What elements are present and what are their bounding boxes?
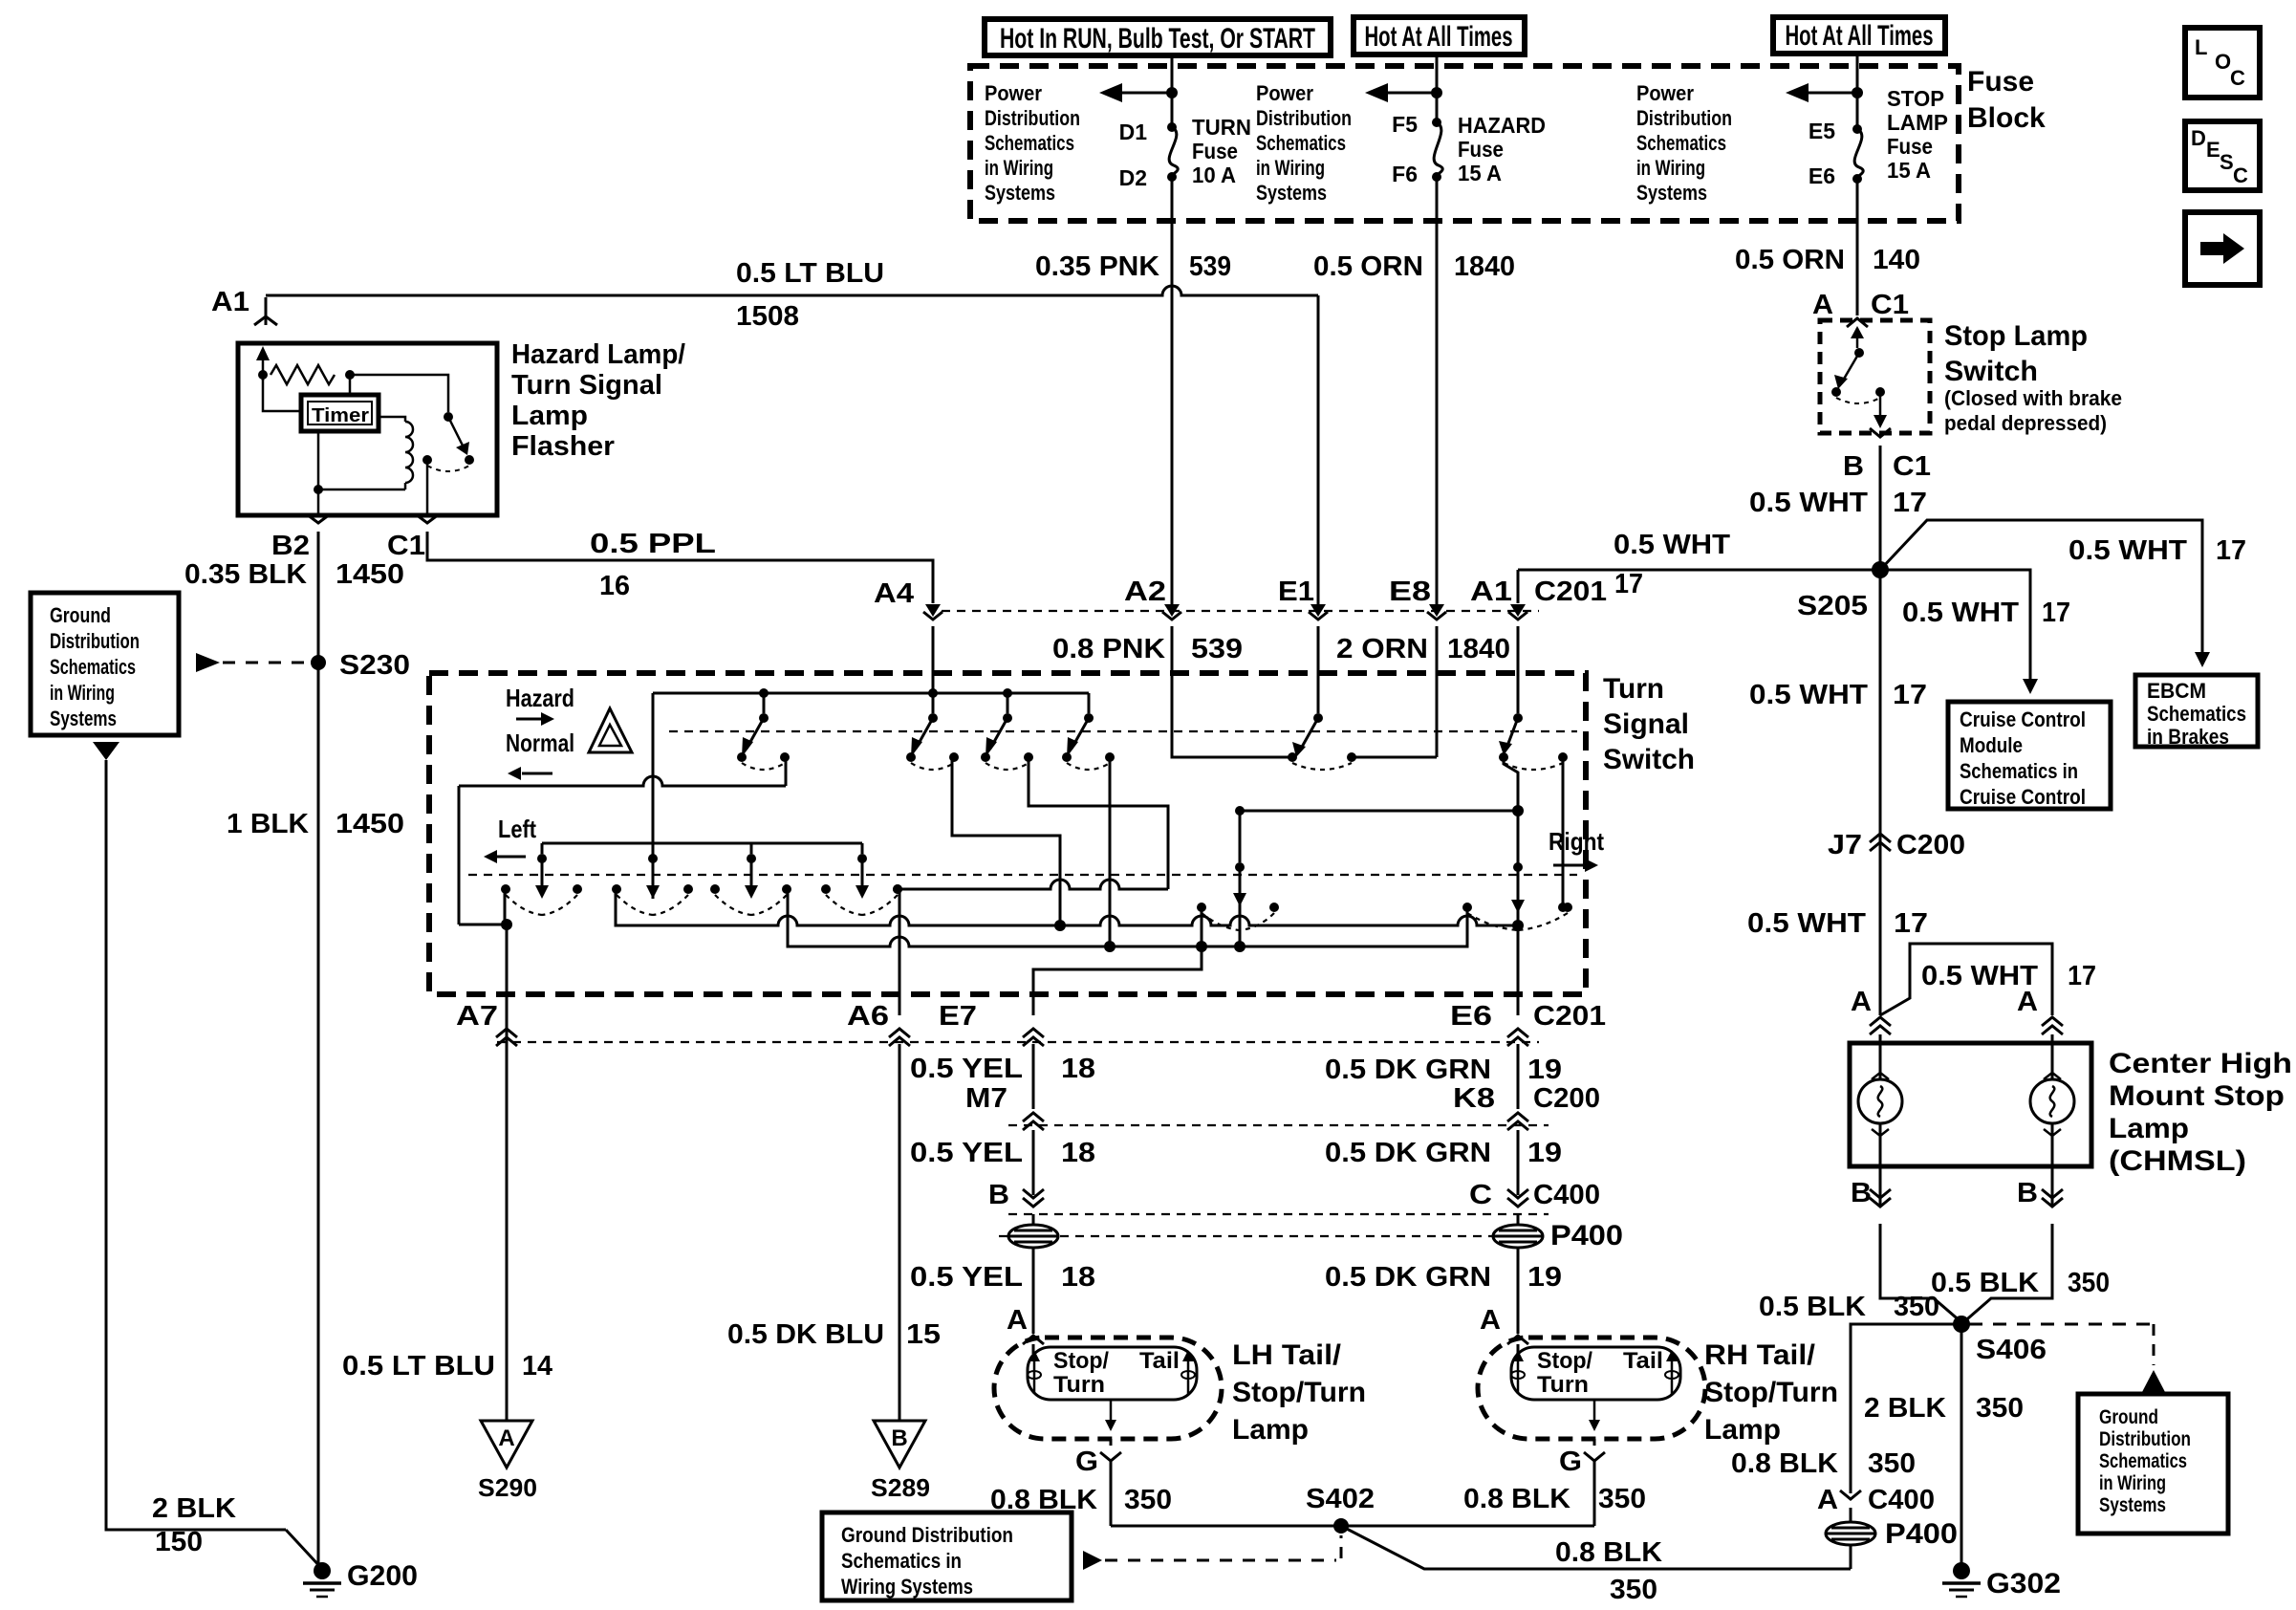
svg-text:0.5 BLK: 0.5 BLK bbox=[1759, 1292, 1866, 1322]
svg-text:Hot At All Times: Hot At All Times bbox=[1365, 21, 1513, 53]
svg-text:18: 18 bbox=[1061, 1138, 1095, 1168]
svg-text:19: 19 bbox=[1527, 1138, 1562, 1168]
svg-text:17: 17 bbox=[1893, 488, 1927, 518]
svg-text:C400: C400 bbox=[1868, 1485, 1935, 1515]
svg-text:Fuse: Fuse bbox=[1887, 134, 1933, 159]
svg-text:S230: S230 bbox=[339, 650, 410, 681]
svg-text:Hazard Lamp/: Hazard Lamp/ bbox=[511, 339, 685, 370]
svg-text:0.5 DK BLU: 0.5 DK BLU bbox=[727, 1319, 884, 1350]
svg-text:D2: D2 bbox=[1119, 165, 1147, 190]
svg-text:G200: G200 bbox=[347, 1560, 418, 1592]
svg-text:1840: 1840 bbox=[1447, 634, 1510, 664]
svg-text:A: A bbox=[1812, 290, 1833, 320]
svg-text:0.5 PPL: 0.5 PPL bbox=[590, 529, 716, 559]
svg-text:C: C bbox=[2230, 66, 2245, 90]
svg-text:0.5 LT BLU: 0.5 LT BLU bbox=[342, 1351, 495, 1382]
svg-text:A2: A2 bbox=[1124, 577, 1166, 607]
svg-text:A: A bbox=[2017, 987, 2038, 1017]
svg-text:C200: C200 bbox=[1896, 830, 1965, 860]
svg-text:E7: E7 bbox=[939, 1001, 977, 1032]
svg-text:S289: S289 bbox=[871, 1473, 930, 1502]
svg-text:A: A bbox=[1480, 1305, 1501, 1336]
svg-text:14: 14 bbox=[522, 1351, 552, 1382]
svg-text:G302: G302 bbox=[1986, 1568, 2061, 1599]
svg-text:Power: Power bbox=[985, 81, 1042, 105]
svg-text:0.5 WHT: 0.5 WHT bbox=[2069, 535, 2187, 566]
svg-text:(Closed with brake: (Closed with brake bbox=[1944, 386, 2122, 410]
svg-text:350: 350 bbox=[1894, 1292, 1939, 1322]
svg-text:Signal: Signal bbox=[1603, 708, 1689, 740]
svg-text:S205: S205 bbox=[1797, 591, 1868, 621]
svg-text:A6: A6 bbox=[847, 1001, 889, 1032]
svg-text:S290: S290 bbox=[478, 1473, 537, 1502]
svg-text:C201: C201 bbox=[1533, 1001, 1606, 1032]
svg-text:Distribution: Distribution bbox=[985, 106, 1080, 130]
svg-text:S: S bbox=[2220, 150, 2234, 174]
svg-text:E6: E6 bbox=[1809, 163, 1835, 188]
svg-text:Systems: Systems bbox=[1636, 181, 1707, 205]
svg-text:(CHMSL): (CHMSL) bbox=[2109, 1145, 2246, 1177]
svg-text:L: L bbox=[2195, 35, 2207, 59]
svg-text:Schematics: Schematics bbox=[985, 131, 1074, 155]
svg-text:Switch: Switch bbox=[1603, 744, 1695, 775]
svg-text:STOP: STOP bbox=[1887, 86, 1944, 111]
svg-text:S406: S406 bbox=[1976, 1335, 2047, 1365]
svg-text:LAMP: LAMP bbox=[1887, 110, 1948, 135]
svg-text:B: B bbox=[1851, 1178, 1872, 1208]
svg-text:K8: K8 bbox=[1453, 1083, 1495, 1114]
svg-text:0.5 WHT: 0.5 WHT bbox=[1749, 488, 1868, 518]
svg-text:Normal: Normal bbox=[506, 729, 574, 757]
svg-text:Schematics: Schematics bbox=[2099, 1450, 2187, 1472]
svg-text:P400: P400 bbox=[1550, 1220, 1623, 1251]
svg-text:B: B bbox=[891, 1425, 907, 1451]
svg-text:0.5 YEL: 0.5 YEL bbox=[910, 1054, 1023, 1084]
svg-text:10 A: 10 A bbox=[1192, 163, 1236, 187]
svg-text:F6: F6 bbox=[1392, 162, 1418, 186]
svg-text:Hot In RUN, Bulb Test, Or STAR: Hot In RUN, Bulb Test, Or START bbox=[1000, 23, 1315, 54]
svg-text:0.5 LT BLU: 0.5 LT BLU bbox=[736, 258, 884, 289]
svg-text:350: 350 bbox=[1868, 1448, 1916, 1479]
svg-text:C1: C1 bbox=[1871, 290, 1909, 320]
svg-text:18: 18 bbox=[1061, 1262, 1095, 1293]
svg-text:0.5 WHT: 0.5 WHT bbox=[1902, 598, 2019, 628]
svg-text:Schematics: Schematics bbox=[2147, 702, 2246, 726]
svg-text:19: 19 bbox=[1527, 1055, 1562, 1085]
svg-text:Lamp: Lamp bbox=[1232, 1414, 1309, 1446]
svg-text:Distribution: Distribution bbox=[2099, 1428, 2191, 1450]
svg-text:Lamp: Lamp bbox=[2109, 1113, 2189, 1144]
svg-text:B2: B2 bbox=[271, 531, 310, 561]
svg-text:539: 539 bbox=[1189, 251, 1231, 282]
svg-text:G: G bbox=[1075, 1447, 1098, 1477]
svg-text:in Wiring: in Wiring bbox=[985, 156, 1053, 180]
svg-text:Power: Power bbox=[1636, 81, 1694, 105]
svg-text:Systems: Systems bbox=[1256, 181, 1327, 205]
svg-text:Switch: Switch bbox=[1944, 356, 2038, 387]
svg-text:Distribution: Distribution bbox=[50, 629, 140, 653]
svg-text:Fuse: Fuse bbox=[1192, 139, 1238, 163]
svg-text:C200: C200 bbox=[1533, 1083, 1600, 1114]
svg-text:Schematics: Schematics bbox=[1256, 131, 1346, 155]
svg-text:E6: E6 bbox=[1450, 1001, 1492, 1032]
svg-text:2 ORN: 2 ORN bbox=[1336, 634, 1428, 664]
svg-text:15: 15 bbox=[906, 1319, 941, 1350]
svg-text:17: 17 bbox=[2068, 961, 2096, 991]
svg-text:0.5 ORN: 0.5 ORN bbox=[1313, 251, 1423, 282]
svg-text:17: 17 bbox=[1614, 569, 1643, 599]
svg-text:Stop/: Stop/ bbox=[1053, 1348, 1109, 1374]
svg-text:E1: E1 bbox=[1278, 577, 1314, 607]
svg-text:350: 350 bbox=[2068, 1268, 2110, 1298]
svg-text:Systems: Systems bbox=[50, 707, 117, 730]
svg-text:S402: S402 bbox=[1306, 1484, 1375, 1514]
svg-text:J7: J7 bbox=[1828, 830, 1862, 860]
svg-text:Flasher: Flasher bbox=[511, 431, 615, 462]
svg-text:17: 17 bbox=[1893, 680, 1927, 710]
svg-text:Lamp: Lamp bbox=[1704, 1414, 1781, 1446]
svg-text:A: A bbox=[1851, 987, 1872, 1017]
svg-text:1508: 1508 bbox=[736, 301, 799, 332]
svg-text:B: B bbox=[1843, 451, 1864, 482]
svg-text:0.5 DK GRN: 0.5 DK GRN bbox=[1325, 1055, 1491, 1085]
svg-text:C1: C1 bbox=[1893, 451, 1931, 482]
svg-text:Hot At All Times: Hot At All Times bbox=[1786, 20, 1934, 52]
svg-text:Timer: Timer bbox=[312, 405, 369, 426]
svg-text:Ground Distribution: Ground Distribution bbox=[841, 1523, 1013, 1547]
svg-text:A: A bbox=[1817, 1485, 1838, 1515]
svg-text:B: B bbox=[2017, 1178, 2038, 1208]
svg-text:Cruise Control: Cruise Control bbox=[1960, 707, 2086, 731]
svg-text:350: 350 bbox=[1598, 1484, 1646, 1514]
svg-text:Systems: Systems bbox=[2099, 1494, 2166, 1516]
svg-text:Fuse: Fuse bbox=[1967, 66, 2034, 98]
svg-text:Stop/: Stop/ bbox=[1537, 1348, 1592, 1374]
svg-text:Schematics in: Schematics in bbox=[1960, 759, 2078, 783]
svg-text:E8: E8 bbox=[1389, 577, 1431, 607]
svg-text:Schematics: Schematics bbox=[1636, 131, 1726, 155]
svg-text:0.5 YEL: 0.5 YEL bbox=[910, 1262, 1023, 1293]
svg-text:0.8 BLK: 0.8 BLK bbox=[1463, 1484, 1570, 1514]
svg-text:pedal depressed): pedal depressed) bbox=[1944, 411, 2107, 435]
svg-text:Lamp: Lamp bbox=[511, 401, 588, 431]
svg-text:0.35 PNK: 0.35 PNK bbox=[1035, 251, 1159, 282]
svg-text:19: 19 bbox=[1527, 1262, 1562, 1293]
svg-text:Distribution: Distribution bbox=[1636, 106, 1732, 130]
svg-text:E: E bbox=[2206, 138, 2220, 162]
svg-text:Stop Lamp: Stop Lamp bbox=[1944, 320, 2088, 352]
svg-text:0.5 WHT: 0.5 WHT bbox=[1749, 680, 1868, 710]
svg-text:1840: 1840 bbox=[1454, 251, 1515, 282]
svg-text:0.5 YEL: 0.5 YEL bbox=[910, 1138, 1023, 1168]
svg-text:0.5 DK GRN: 0.5 DK GRN bbox=[1325, 1262, 1491, 1293]
svg-text:in Wiring: in Wiring bbox=[50, 681, 115, 705]
svg-text:A1: A1 bbox=[211, 287, 249, 317]
svg-text:Mount Stop: Mount Stop bbox=[2109, 1080, 2285, 1112]
svg-text:Stop/Turn: Stop/Turn bbox=[1232, 1377, 1366, 1408]
svg-text:Hazard: Hazard bbox=[506, 684, 574, 712]
svg-text:17: 17 bbox=[2216, 535, 2246, 566]
svg-text:C: C bbox=[2233, 163, 2248, 187]
svg-text:Ground: Ground bbox=[2099, 1406, 2158, 1428]
svg-text:Turn: Turn bbox=[1053, 1372, 1105, 1398]
svg-text:150: 150 bbox=[155, 1527, 203, 1557]
svg-text:A: A bbox=[498, 1425, 514, 1451]
svg-text:Center High: Center High bbox=[2109, 1048, 2292, 1079]
svg-text:140: 140 bbox=[1873, 245, 1920, 275]
svg-text:Left: Left bbox=[498, 815, 536, 843]
svg-text:Block: Block bbox=[1967, 102, 2046, 134]
svg-text:15 A: 15 A bbox=[1458, 161, 1502, 185]
svg-text:0.5 ORN: 0.5 ORN bbox=[1735, 245, 1845, 275]
svg-text:D: D bbox=[2191, 126, 2206, 150]
svg-text:539: 539 bbox=[1191, 634, 1243, 664]
svg-text:0.5 BLK: 0.5 BLK bbox=[1931, 1268, 2039, 1298]
svg-text:Turn: Turn bbox=[1537, 1372, 1589, 1398]
svg-text:Distribution: Distribution bbox=[1256, 106, 1352, 130]
svg-text:Schematics: Schematics bbox=[50, 655, 136, 679]
svg-text:17: 17 bbox=[1894, 908, 1928, 939]
svg-text:Right: Right bbox=[1549, 827, 1604, 856]
svg-text:Turn: Turn bbox=[1603, 673, 1664, 705]
svg-text:350: 350 bbox=[1124, 1485, 1172, 1515]
svg-text:Ground: Ground bbox=[50, 603, 111, 627]
svg-text:Tail: Tail bbox=[1139, 1348, 1180, 1374]
svg-text:Tail: Tail bbox=[1623, 1348, 1663, 1374]
svg-text:A1: A1 bbox=[1470, 577, 1512, 607]
svg-text:A4: A4 bbox=[874, 578, 914, 609]
svg-text:O: O bbox=[2215, 50, 2231, 74]
svg-text:Wiring Systems: Wiring Systems bbox=[841, 1575, 973, 1599]
svg-text:A7: A7 bbox=[456, 1001, 498, 1032]
svg-text:HAZARD: HAZARD bbox=[1458, 113, 1546, 138]
svg-text:0.8 BLK: 0.8 BLK bbox=[1731, 1448, 1838, 1479]
svg-text:in Brakes: in Brakes bbox=[2147, 725, 2229, 749]
svg-text:0.8 PNK: 0.8 PNK bbox=[1052, 634, 1165, 664]
svg-text:G: G bbox=[1559, 1447, 1582, 1477]
svg-text:in Wiring: in Wiring bbox=[1636, 156, 1705, 180]
svg-text:D1: D1 bbox=[1119, 120, 1148, 144]
svg-text:A: A bbox=[1007, 1305, 1028, 1336]
svg-text:350: 350 bbox=[1610, 1575, 1657, 1605]
svg-text:C201: C201 bbox=[1534, 577, 1607, 607]
svg-text:18: 18 bbox=[1061, 1054, 1095, 1084]
svg-text:C: C bbox=[1469, 1180, 1492, 1210]
svg-text:C1: C1 bbox=[387, 531, 425, 561]
svg-text:2 BLK: 2 BLK bbox=[1864, 1393, 1946, 1424]
svg-text:Module: Module bbox=[1960, 733, 2023, 757]
svg-text:0.8 BLK: 0.8 BLK bbox=[1555, 1537, 1662, 1568]
svg-text:Schematics in: Schematics in bbox=[841, 1549, 962, 1573]
svg-text:P400: P400 bbox=[1885, 1518, 1958, 1550]
svg-text:0.5 DK GRN: 0.5 DK GRN bbox=[1325, 1138, 1491, 1168]
svg-text:M7: M7 bbox=[965, 1083, 1007, 1114]
svg-text:E5: E5 bbox=[1809, 119, 1835, 143]
svg-text:1450: 1450 bbox=[336, 559, 404, 590]
svg-text:1450: 1450 bbox=[336, 809, 404, 839]
svg-text:15 A: 15 A bbox=[1887, 158, 1931, 183]
svg-text:EBCM: EBCM bbox=[2147, 679, 2206, 703]
svg-text:Stop/Turn: Stop/Turn bbox=[1704, 1377, 1838, 1408]
svg-text:Power: Power bbox=[1256, 81, 1313, 105]
svg-text:2 BLK: 2 BLK bbox=[152, 1493, 236, 1524]
svg-text:Cruise Control: Cruise Control bbox=[1960, 785, 2086, 809]
svg-text:B: B bbox=[988, 1180, 1009, 1210]
svg-text:Systems: Systems bbox=[985, 181, 1055, 205]
svg-text:TURN: TURN bbox=[1192, 115, 1251, 140]
svg-text:Fuse: Fuse bbox=[1458, 137, 1504, 162]
svg-text:350: 350 bbox=[1976, 1393, 2024, 1424]
svg-text:0.5 WHT: 0.5 WHT bbox=[1747, 908, 1866, 939]
svg-text:in Wiring: in Wiring bbox=[2099, 1472, 2166, 1494]
svg-text:in Wiring: in Wiring bbox=[1256, 156, 1325, 180]
svg-text:1 BLK: 1 BLK bbox=[227, 809, 309, 839]
svg-text:16: 16 bbox=[599, 571, 630, 601]
svg-text:RH Tail/: RH Tail/ bbox=[1704, 1339, 1816, 1371]
svg-text:Turn Signal: Turn Signal bbox=[511, 370, 662, 401]
svg-text:C400: C400 bbox=[1533, 1180, 1600, 1210]
svg-text:17: 17 bbox=[2042, 598, 2070, 628]
svg-text:LH Tail/: LH Tail/ bbox=[1232, 1339, 1342, 1371]
svg-text:F5: F5 bbox=[1392, 112, 1418, 137]
svg-text:0.35 BLK: 0.35 BLK bbox=[184, 559, 307, 590]
svg-text:0.5 WHT: 0.5 WHT bbox=[1614, 530, 1730, 560]
